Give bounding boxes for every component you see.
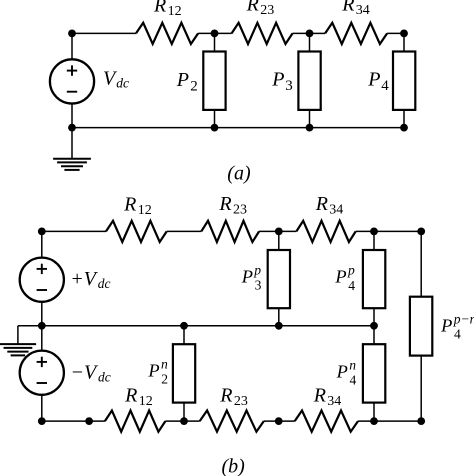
wire b R34-right bottom — [358, 420, 421, 422]
svg-text:4: 4 — [381, 78, 389, 94]
node b mid-2 — [180, 322, 188, 330]
svg-text:3: 3 — [255, 278, 262, 293]
wire a P4 bottom leg — [403, 110, 405, 128]
node a top-1 — [68, 30, 76, 38]
load P4p-n — [410, 297, 432, 356]
wire b left mid-upper — [41, 302, 43, 326]
voltage source Vdc (a) — [50, 59, 94, 103]
wire b R23-R34 bottom — [264, 420, 295, 422]
node a bot-3 — [306, 124, 314, 132]
wire b P4n bottom leg — [373, 403, 375, 422]
svg-text:R: R — [219, 384, 232, 406]
wire a left top — [71, 33, 73, 59]
wire a node2-R23 — [215, 32, 232, 34]
node b top-right — [417, 228, 425, 236]
svg-text:P: P — [241, 267, 253, 287]
wire b left mid-lower — [41, 326, 43, 351]
resistor R12 (b top) — [106, 221, 167, 242]
load P4n — [363, 344, 385, 402]
wire b right upper — [420, 231, 422, 296]
wire b bot-left — [42, 420, 105, 422]
resistor R23 (b bottom) — [200, 411, 264, 432]
wire b left top — [41, 231, 43, 257]
node a bot-2 — [211, 124, 219, 132]
wire b node3-R34 — [279, 230, 297, 232]
wire b P4p bottom leg — [373, 308, 375, 326]
svg-text:P: P — [176, 69, 189, 91]
wire b P3p top leg — [278, 231, 280, 250]
svg-text:P: P — [147, 360, 159, 380]
load P3p — [268, 250, 290, 308]
svg-text:R: R — [246, 0, 259, 16]
node b top-3 — [275, 228, 283, 236]
wire a bottom rail — [72, 127, 404, 129]
wire b top-left — [42, 230, 106, 232]
svg-text:p−n: p−n — [453, 311, 474, 326]
wire a node3-R34 — [310, 32, 326, 34]
svg-text:dc: dc — [98, 276, 111, 291]
wire b ground stem — [17, 326, 19, 344]
svg-text:P: P — [367, 69, 380, 91]
svg-text:34: 34 — [327, 394, 341, 409]
node b mid-3 — [275, 322, 283, 330]
load P2n — [173, 344, 195, 402]
svg-text:P: P — [440, 315, 452, 335]
svg-text:2: 2 — [161, 372, 168, 387]
svg-text:4: 4 — [350, 373, 357, 388]
node b bot-right — [417, 417, 425, 425]
node a top-3 — [306, 30, 314, 38]
wire a P4 top leg — [403, 33, 405, 51]
svg-text:34: 34 — [329, 203, 343, 218]
node b bot-2 — [180, 417, 188, 425]
wire a P3 bottom leg — [309, 110, 311, 128]
node b bot-1 — [38, 417, 46, 425]
load P4p — [363, 250, 385, 308]
node a top-4 — [400, 30, 408, 38]
svg-text:P: P — [336, 361, 348, 381]
resistor R34 (b bottom) — [295, 411, 358, 432]
wire b left bottom — [41, 395, 43, 421]
svg-text:R: R — [218, 193, 231, 215]
wire b middle rail — [42, 325, 374, 327]
svg-text:3: 3 — [285, 78, 293, 94]
voltage source -Vdc — [20, 351, 64, 395]
svg-text:P: P — [271, 69, 284, 91]
svg-text:34: 34 — [356, 3, 370, 18]
wire b R34-right — [356, 230, 422, 232]
svg-text:12: 12 — [138, 203, 152, 218]
node b bot-1b — [85, 417, 93, 425]
node b mid-1 — [38, 322, 46, 330]
wire b right lower — [420, 356, 422, 422]
ground (a) — [53, 159, 91, 170]
wire a left bottom — [71, 104, 73, 128]
wire b P2n top leg — [183, 326, 185, 344]
svg-text:12: 12 — [139, 394, 153, 409]
resistor R34 (b top) — [296, 221, 355, 242]
svg-text:−V: −V — [71, 361, 99, 383]
svg-text:R: R — [123, 193, 136, 215]
svg-text:p: p — [347, 263, 355, 278]
svg-text:n: n — [349, 357, 356, 372]
svg-text:dc: dc — [98, 370, 111, 385]
resistor R23 (b top) — [201, 221, 259, 242]
load P3 — [298, 52, 320, 110]
svg-text:2: 2 — [190, 78, 198, 94]
svg-text:R: R — [153, 0, 166, 16]
svg-text:23: 23 — [234, 394, 248, 409]
wire b R12-node2 bottom — [165, 420, 184, 422]
svg-text:dc: dc — [116, 76, 129, 91]
svg-text:+V: +V — [70, 268, 98, 290]
wire b P3p bottom leg — [278, 308, 280, 326]
svg-text:4: 4 — [348, 278, 355, 293]
node b mid-4 — [370, 322, 378, 330]
ground (b) — [0, 344, 36, 355]
wire a P3 top leg — [309, 33, 311, 51]
svg-text:R: R — [124, 384, 137, 406]
resistor R12 (b bottom) — [105, 411, 165, 432]
svg-text:n: n — [161, 356, 168, 371]
resistor R23 (a) — [232, 23, 293, 44]
wire b R23-node3 — [259, 230, 279, 232]
wire a R23-node3 — [293, 32, 310, 34]
node a bot-1 — [68, 124, 76, 132]
svg-text:4: 4 — [454, 327, 461, 342]
wire b ground horizontal — [18, 325, 42, 327]
svg-text:p: p — [253, 263, 261, 278]
wire b R12-R23 — [167, 230, 202, 232]
svg-text:12: 12 — [168, 4, 182, 19]
node a top-2 — [211, 30, 219, 38]
wire b P4p top leg — [373, 231, 375, 250]
node b bot-4 — [370, 417, 378, 425]
load P4 — [393, 52, 415, 110]
wire b node2-R23 bottom — [184, 420, 200, 422]
wire a ground stem — [71, 128, 73, 159]
load P2 — [203, 52, 225, 110]
wire a top-left — [72, 32, 136, 34]
wire a R34-node4 — [387, 32, 404, 34]
resistor R34 (a) — [325, 23, 387, 44]
wire a P2 top leg — [214, 33, 216, 51]
wire b P2n bottom leg — [183, 403, 185, 422]
svg-text:23: 23 — [233, 203, 247, 218]
node b top-4 — [370, 228, 378, 236]
voltage source +Vdc — [20, 258, 64, 302]
node b top-1 — [38, 228, 46, 236]
wire a P2 bottom leg — [214, 110, 216, 128]
node a bot-4 — [400, 124, 408, 132]
svg-text:P: P — [334, 267, 346, 287]
svg-text:(b): (b) — [222, 455, 246, 476]
svg-text:R: R — [315, 193, 328, 215]
resistor R12 (a) — [136, 23, 198, 44]
svg-text:(a): (a) — [227, 163, 251, 185]
node b bot-3 — [275, 417, 283, 425]
svg-text:R: R — [341, 0, 354, 16]
wire a R12-node2 — [198, 32, 214, 34]
svg-text:R: R — [313, 384, 326, 406]
svg-text:23: 23 — [260, 3, 274, 18]
wire b P4n top leg — [373, 326, 375, 344]
